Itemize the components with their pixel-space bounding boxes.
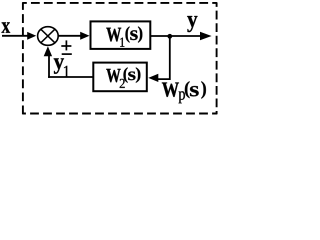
wire feedback vertical from junction dot down and left xyxy=(158,37,170,80)
dashed boundary bottom edge xyxy=(22,113,217,115)
label Wp subscript p xyxy=(179,91,185,103)
label y1 main y xyxy=(54,58,64,73)
summing junction circle xyxy=(38,27,59,46)
arrowhead into summing junction xyxy=(27,32,36,40)
block W2 rectangle xyxy=(93,63,147,92)
summing junction X diagonal 2 xyxy=(41,29,55,43)
label W2 subscript 2 xyxy=(120,79,125,88)
label W2(s) main W xyxy=(106,69,120,82)
arrowhead output y xyxy=(200,32,212,40)
dashed boundary right edge xyxy=(216,2,218,114)
wire feedback vertical up to summing junction xyxy=(48,52,50,78)
summing junction X diagonal 1 xyxy=(41,29,55,43)
wire W2 output leftward xyxy=(48,76,93,78)
label y1 subscript 1 xyxy=(64,66,69,77)
plus-minus sign bottom bar xyxy=(62,53,72,55)
arrowhead into W1 xyxy=(80,32,89,40)
label Wp(s) main W xyxy=(162,82,179,96)
label W2 letter s xyxy=(128,72,135,81)
label Wp open paren xyxy=(185,81,190,98)
junction dot on output wire xyxy=(167,34,172,39)
label W1 close paren xyxy=(138,26,142,42)
arrowhead into W2 right side xyxy=(148,74,158,82)
label y (output) xyxy=(187,16,197,32)
label W2 close paren xyxy=(136,67,140,82)
plus-minus sign horizontal stroke xyxy=(61,45,71,47)
label W2 open paren xyxy=(123,67,127,82)
label W1 subscript 1 xyxy=(120,38,124,47)
arrowhead into summing junction bottom xyxy=(44,46,52,56)
wire summing junction to W1 xyxy=(58,35,81,37)
block W1 rectangle xyxy=(91,21,151,49)
label W1(s) main W xyxy=(106,28,121,42)
wire W1 output to y xyxy=(150,35,202,37)
label Wp letter s xyxy=(190,86,199,96)
wire input x to summing junction xyxy=(2,35,28,37)
dashed boundary top edge xyxy=(22,2,217,4)
plus-minus sign vertical stroke xyxy=(65,40,67,50)
label W1 open paren xyxy=(126,26,130,42)
label W1 letter s xyxy=(130,30,137,40)
dashed boundary left edge xyxy=(22,2,24,114)
label Wp close paren xyxy=(201,81,205,99)
label x (input) xyxy=(2,22,11,32)
